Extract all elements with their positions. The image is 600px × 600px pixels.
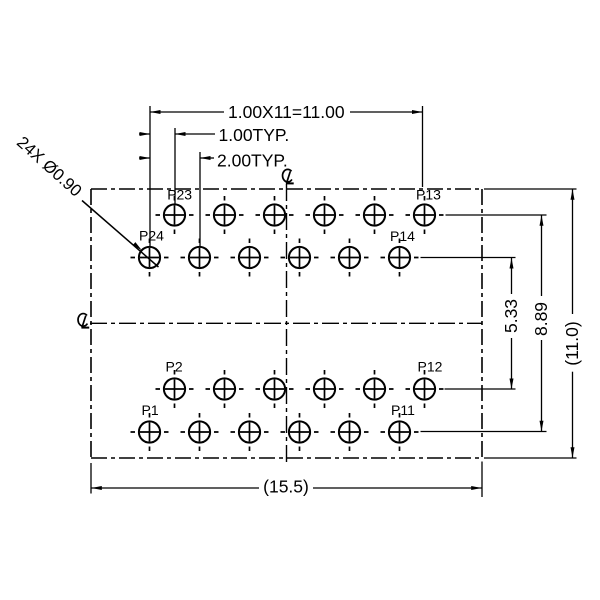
pad P19 [256, 196, 294, 234]
pad P18 [281, 239, 319, 277]
svg-text:P12: P12 [418, 359, 443, 375]
leader line [82, 201, 159, 268]
svg-text:P13: P13 [416, 187, 441, 203]
svg-text:P1: P1 [142, 402, 159, 418]
dimension 2.00TYP. [139, 152, 214, 246]
dimension 8.89 [421, 215, 547, 432]
svg-text:P2: P2 [166, 359, 183, 375]
component body outline (phantom rectangle) [91, 189, 482, 458]
centerline symbol (top) [283, 169, 294, 183]
svg-text:24X Ø0.90: 24X Ø0.90 [13, 133, 85, 201]
horizontal centerline [90, 322, 482, 324]
svg-text:8.89: 8.89 [531, 302, 551, 336]
pad P10 [356, 370, 394, 408]
svg-text:P24: P24 [139, 228, 164, 244]
svg-text:2.00TYP.: 2.00TYP. [217, 151, 288, 171]
pad P15 [356, 196, 394, 234]
pad P13 [406, 196, 444, 234]
pad P14 [381, 239, 419, 277]
pad P16 [331, 239, 369, 277]
dimension (11.0) [484, 189, 577, 458]
svg-text:P11: P11 [391, 402, 415, 418]
pad P5 [231, 413, 269, 451]
pad P1 [131, 413, 169, 451]
pad P24 [131, 239, 169, 277]
pad P9 [331, 413, 369, 451]
svg-text:P23: P23 [167, 187, 192, 203]
pad P20 [231, 239, 269, 277]
svg-text:P14: P14 [390, 228, 415, 244]
pad P11 [381, 413, 419, 451]
centerline symbol (left) [78, 314, 89, 328]
pad P21 [206, 196, 244, 234]
pad P17 [306, 196, 344, 234]
pad P3 [181, 413, 219, 451]
dimension 1.00TYP. [139, 128, 215, 204]
pad P22 [181, 239, 219, 277]
pad P12 [406, 370, 444, 408]
svg-text:(15.5): (15.5) [263, 477, 309, 497]
pad P6 [256, 370, 294, 408]
svg-text:1.00X11=11.00: 1.00X11=11.00 [228, 102, 345, 122]
svg-text:1.00TYP.: 1.00TYP. [219, 125, 290, 145]
pad P8 [306, 370, 344, 408]
pad P7 [281, 413, 319, 451]
svg-text:(11.0): (11.0) [562, 321, 582, 365]
dimension 5.33 [421, 258, 516, 390]
vertical centerline [286, 184, 288, 462]
pad P2 [156, 370, 194, 408]
dimension (15.5) [91, 462, 482, 498]
pad P23 [156, 196, 194, 234]
svg-text:5.33: 5.33 [501, 299, 521, 333]
pad P4 [206, 370, 244, 408]
dimension 1.00X11=11.00 [150, 106, 423, 247]
